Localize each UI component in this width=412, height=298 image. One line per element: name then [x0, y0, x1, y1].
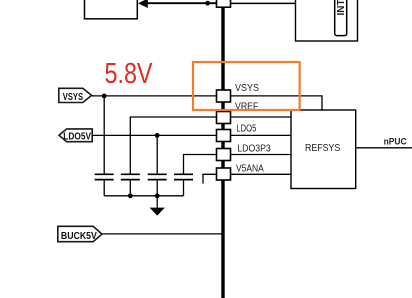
pin V5ANA	[217, 164, 265, 181]
junction VSYS / C1	[102, 94, 107, 99]
svg-text:LDO5: LDO5	[236, 124, 256, 135]
junction on top wire	[205, 1, 210, 6]
capacitor C2	[121, 174, 140, 196]
wire C3 lead down	[156, 135, 158, 174]
pin box top (cut off)	[217, 0, 231, 7]
capacitor C1	[95, 174, 114, 196]
svg-text:VSYS: VSYS	[235, 83, 259, 94]
svg-text:LDO5V: LDO5V	[63, 131, 91, 142]
svg-text:REFSYS: REFSYS	[305, 143, 340, 154]
wire VREF left to C2	[130, 117, 216, 174]
junction rail / C3	[155, 193, 160, 198]
svg-text:VSYS: VSYS	[63, 92, 84, 103]
capacitor C3	[148, 174, 167, 196]
ground	[150, 196, 165, 216]
wire nPUC output	[356, 147, 412, 149]
net label VSYS flag	[59, 88, 92, 103]
sub-block INTLDO slim rect	[335, 0, 348, 36]
pin VREF	[217, 102, 259, 124]
wire V5ANA left stub	[203, 174, 217, 183]
wire C1 lead down	[103, 96, 105, 174]
wire LDO3P3 right to REFSYS	[231, 154, 292, 156]
pin LDO5	[217, 124, 257, 142]
svg-text:V5ANA: V5ANA	[236, 164, 264, 175]
pin VSYS	[217, 83, 260, 102]
wire LDO5 right to REFSYS	[231, 134, 292, 136]
main vertical bus	[221, 0, 224, 298]
svg-text:INTLDO: INTLDO	[336, 0, 347, 16]
svg-text:nPUC: nPUC	[384, 136, 407, 147]
wire V5ANA right to REFSYS	[231, 173, 292, 175]
wire VSYS pin to REFSYS top	[231, 96, 323, 110]
wire LDO3P3 left to C4	[184, 155, 217, 175]
junction LDO5 / C3	[155, 133, 160, 138]
net label LDO5V flag	[59, 129, 92, 142]
wire top horizontal from block to top pin	[143, 2, 217, 4]
wire top pin to INTLDO block	[231, 2, 297, 4]
svg-text:5.8V: 5.8V	[105, 58, 154, 90]
svg-text:BUCK5V: BUCK5V	[61, 231, 97, 242]
block U2 (top-left, cut off)	[85, 0, 138, 19]
arrowhead into block U2	[138, 0, 148, 8]
svg-text:LDO3P3: LDO3P3	[237, 143, 271, 154]
highlight box (orange)	[193, 62, 300, 110]
wire BUCK5V to bus	[102, 233, 223, 235]
wire LDO5V flag to LDO5 pin	[92, 134, 216, 136]
wire VREF right to REFSYS	[231, 116, 292, 118]
annotation 5.8V	[105, 58, 154, 90]
pin LDO3P3	[217, 143, 272, 160]
capacitor C4	[174, 174, 193, 196]
net label BUCK5V flag	[58, 226, 102, 242]
wire VSYS flag to pin	[92, 95, 217, 97]
junction rail / C2	[128, 193, 133, 198]
block U3 INTLDO (top-right, cut off)	[296, 0, 358, 41]
wire ground rail	[104, 195, 183, 197]
block REFSYS	[291, 110, 356, 189]
net nPUC label	[384, 136, 407, 147]
